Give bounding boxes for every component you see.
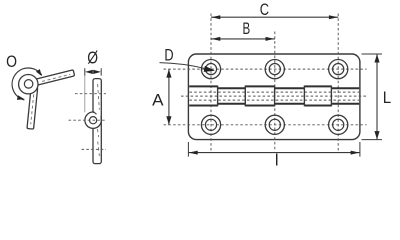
side centerline upper hole [75, 93, 106, 95]
upper leaf hidden centerline [42, 74, 70, 81]
svg-text:Ø: Ø [87, 48, 98, 68]
knuckle band edges odd segments [189, 85, 331, 87]
svg-text:O: O [6, 52, 17, 71]
knuckle band centerline [181, 95, 367, 97]
strip hidden dash below knuckle [98, 129, 99, 137]
svg-text:C: C [260, 1, 269, 19]
knuckle band edges even segments [218, 87, 360, 89]
dimension l arrows [189, 151, 198, 155]
dimension l extension lines [188, 142, 360, 157]
arc arrowhead upper [36, 69, 42, 76]
hole r1c1 outer [201, 60, 220, 79]
knuckle band hidden line upper [189, 91, 359, 93]
row centerline top [164, 68, 367, 70]
svg-text:D: D [164, 47, 173, 65]
diameter extension line [84, 76, 86, 113]
leader D [160, 63, 205, 69]
knuckle band verticals [218, 86, 332, 107]
hole r2c1 outer [201, 115, 220, 134]
knuckle pin circle [24, 80, 32, 89]
hole r2c3 outer [329, 115, 348, 134]
column centerline 1 [210, 14, 212, 151]
leader D arrowhead [204, 66, 215, 72]
column centerline 3 [337, 14, 339, 151]
svg-text:B: B [243, 20, 251, 38]
hinge plate [188, 54, 360, 140]
knuckle outer circle [19, 75, 38, 94]
lower leaf hidden centerline [31, 94, 34, 124]
hole r1c3 inner [333, 64, 344, 75]
arc arrowhead lower [17, 95, 25, 100]
dimension L line [376, 54, 378, 140]
hole r2c3 inner [333, 119, 344, 130]
svg-text:A: A [152, 92, 163, 110]
side knuckle outer curl [85, 112, 101, 128]
dimension A arrows [166, 69, 171, 77]
diameter arrows [85, 70, 93, 74]
dimension C arrows [211, 15, 220, 19]
opening-angle arc [12, 68, 42, 100]
knuckle band hidden line lower [189, 99, 359, 101]
hole r1c3 outer [329, 60, 348, 79]
dimension L arrows [374, 54, 379, 62]
dimension C line [211, 16, 338, 18]
svg-text:L: L [383, 89, 391, 107]
dimension l line [188, 152, 360, 154]
hole r2c1 inner [205, 119, 216, 130]
side leaf strip [93, 79, 101, 164]
side centerline lower hole [82, 148, 107, 150]
dimension A line [168, 69, 170, 125]
curl inner hook [93, 112, 96, 114]
dimension B arrows [211, 37, 220, 41]
strip hidden hole dashes upper [98, 84, 100, 112]
hole r2c2 inner [269, 119, 280, 130]
side centerline knuckle [69, 119, 107, 121]
dimension L extension lines [362, 54, 383, 140]
column centerline 2 [274, 32, 276, 151]
hole r1c2 inner [269, 64, 280, 75]
upper leaf (bar, tilted) [28, 70, 75, 87]
hole r1c2 outer [265, 60, 284, 79]
diameter dimension ticks [85, 68, 101, 75]
dimension B line [211, 38, 275, 40]
lower leaf (vertical, slight lean) [27, 87, 38, 129]
row centerline bottom [164, 124, 367, 126]
hole r1c1 inner [205, 64, 216, 75]
side knuckle pin [90, 117, 97, 124]
strip hidden hole dashes lower [98, 141, 100, 156]
svg-text:l: l [275, 151, 279, 168]
erase top-right quadrant of curl [94, 110, 100, 120]
hole r2c2 outer [265, 115, 284, 134]
